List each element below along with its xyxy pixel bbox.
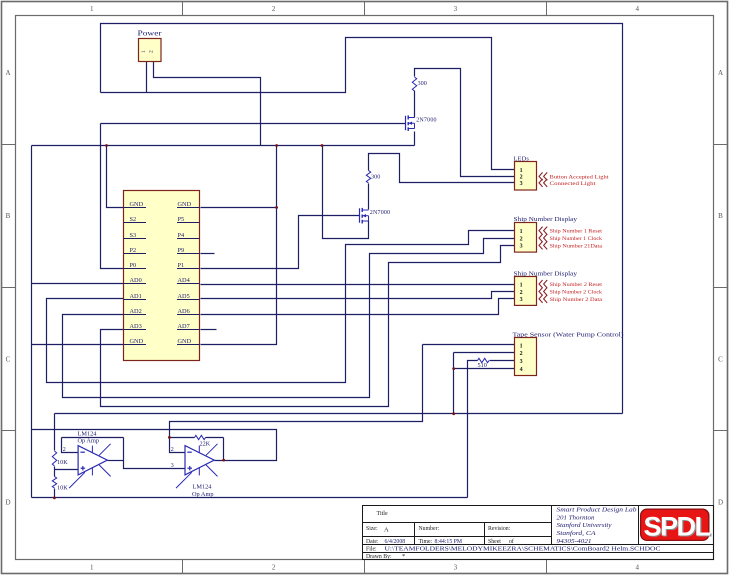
- wire op-amp 1 feedback top: [62, 437, 124, 439]
- wire ground riser to R 510: [468, 361, 478, 498]
- svg-text:4: 4: [635, 5, 639, 13]
- wire op-amp 1 - input: [62, 438, 79, 453]
- svg-text:Ship Number 1 Reset: Ship Number 1 Reset: [550, 229, 603, 235]
- wire Power pin 1: [146, 62, 148, 93]
- wire AD4 to Ship 2 pin 1: [201, 284, 515, 286]
- U1 pin P5 (right row 2): [177, 222, 200, 224]
- U1 pin GND (left row 1): [124, 207, 147, 209]
- svg-text:Date:: Date:: [366, 539, 379, 545]
- wire P9 stub: [201, 253, 215, 255]
- wire U1 GND right: [201, 207, 277, 209]
- wire Tape pin 1 to op-amp 2 - input: [170, 345, 423, 453]
- svg-text:300: 300: [418, 80, 427, 87]
- svg-text:4: 4: [635, 564, 639, 572]
- svg-text:AD3: AD3: [130, 323, 142, 330]
- svg-text:8:44:15 PM: 8:44:15 PM: [435, 539, 463, 545]
- svg-text:10K: 10K: [57, 459, 68, 466]
- svg-text:D: D: [5, 499, 10, 507]
- svg-text:Sheet: Sheet: [488, 539, 501, 545]
- svg-text:C: C: [718, 355, 723, 363]
- wire U1 GND right riser: [201, 146, 277, 345]
- wire rail to R 10K: [54, 414, 56, 451]
- svg-text:1: 1: [520, 229, 523, 235]
- svg-text:2: 2: [520, 290, 523, 296]
- svg-text:P9: P9: [178, 247, 185, 254]
- wire R 510 to Tape pin 3: [490, 360, 515, 362]
- wire AD5 to Ship 2 pin 2: [201, 292, 515, 299]
- svg-text:D: D: [718, 499, 723, 507]
- svg-text:P2: P2: [130, 247, 137, 254]
- svg-text:2: 2: [171, 447, 174, 453]
- junction ground bus / U1 GND left: [105, 144, 108, 147]
- svg-text:Number:: Number:: [419, 526, 440, 532]
- svg-text:GND: GND: [178, 338, 192, 345]
- svg-text:3: 3: [454, 564, 458, 572]
- svg-text:SPDL: SPDL: [643, 512, 710, 542]
- svg-text:Size:: Size:: [366, 526, 378, 532]
- connector Tape Sensor (Water Pump Control): [515, 338, 537, 376]
- svg-text:2: 2: [520, 351, 523, 357]
- svg-text:AD7: AD7: [178, 323, 190, 330]
- wire Q2 drain to R 300: [368, 184, 370, 210]
- U1 pin GND (left row 10): [124, 344, 147, 346]
- title block: [363, 506, 714, 560]
- connector LEDs: [515, 162, 537, 191]
- U1 pin AD4 (right row 6): [177, 283, 200, 285]
- wire Tape pin 2 drop: [453, 353, 455, 414]
- junction op-amp 2 feedback: [168, 436, 171, 439]
- junction ground bus / GND right riser: [275, 144, 278, 147]
- transistor Q1 2N7000: [406, 115, 415, 131]
- junction op-amp 2 output: [222, 459, 225, 462]
- svg-text:Time:: Time:: [419, 539, 433, 545]
- svg-text:C: C: [6, 355, 11, 363]
- svg-text:AD5: AD5: [178, 293, 190, 300]
- svg-text:GND: GND: [130, 338, 144, 345]
- svg-text:P5: P5: [178, 216, 185, 223]
- svg-text:Ship Number 2 Data: Ship Number 2 Data: [550, 297, 603, 303]
- svg-text:Ship Number 21Data: Ship Number 21Data: [550, 243, 603, 249]
- svg-text:3: 3: [520, 297, 523, 303]
- connector Ship Number Display 1: [515, 223, 537, 253]
- svg-text:Op Amp: Op Amp: [78, 437, 100, 444]
- wire ground bus horizontal: [32, 145, 415, 147]
- resistor 300 (Q1 drain): [412, 77, 416, 91]
- svg-text:*: *: [402, 553, 405, 560]
- svg-text:2N7000: 2N7000: [370, 210, 391, 216]
- wire AD0: [32, 283, 124, 285]
- wire Q2 source loop: [323, 146, 369, 239]
- op-amp U2A LM124: [69, 444, 111, 488]
- resistor 10K (lower divider): [52, 477, 56, 489]
- svg-text:AD2: AD2: [130, 308, 142, 315]
- svg-text:Smart Product Design Lab: Smart Product Design Lab: [557, 506, 637, 513]
- wire feedback drop: [223, 438, 225, 461]
- svg-text:300: 300: [371, 174, 380, 181]
- U1 pin AD6 (right row 8): [177, 314, 200, 316]
- svg-text:Power: Power: [138, 30, 163, 38]
- junction ground bus / Q2 source: [321, 144, 324, 147]
- wire bottom rail: [55, 413, 623, 415]
- resistor 22K (op-amp 2 feedback): [195, 435, 206, 439]
- U1 pin P4 (right row 3): [177, 238, 200, 240]
- U1 pin P2 (left row 4): [124, 253, 147, 255]
- svg-text:Button Accepted Light: Button Accepted Light: [550, 174, 610, 180]
- svg-text:P4: P4: [178, 232, 186, 239]
- wire Power pin 2: [154, 62, 261, 146]
- junction Tape pin 4: [452, 367, 455, 370]
- svg-text:S2: S2: [130, 216, 137, 223]
- svg-text:3: 3: [520, 359, 523, 365]
- svg-text:Stanford University: Stanford University: [557, 522, 612, 529]
- svg-text:S3: S3: [130, 232, 137, 239]
- wire Tape pin 4: [454, 368, 515, 370]
- svg-text:A: A: [5, 69, 10, 77]
- svg-text:A: A: [384, 527, 389, 534]
- wire AD2 to Ship 1 pin 2: [63, 239, 515, 398]
- svg-text:2: 2: [272, 5, 276, 13]
- svg-text:Revision:: Revision:: [488, 526, 511, 532]
- connector Ship Number Display 2: [515, 277, 537, 306]
- transistor Q2 2N7000: [360, 208, 369, 224]
- U1 pin AD2 (left row 8): [124, 314, 147, 316]
- wire power top rail: [101, 24, 623, 414]
- svg-text:3: 3: [171, 463, 174, 469]
- wire to U1 P0: [101, 124, 124, 269]
- wire bottom ground bus: [32, 497, 468, 499]
- wire R 300 to LEDs pin 3: [369, 154, 515, 183]
- svg-text:B: B: [718, 212, 723, 220]
- net label Connected Light: [539, 179, 547, 187]
- U1 pin P1 (right row 5): [177, 268, 200, 270]
- U1 pin AD7 (right row 9): [177, 329, 200, 331]
- wire divider tap to op-amp + input: [55, 469, 79, 471]
- U1 pin S2 (left row 2): [124, 222, 147, 224]
- svg-text:Ship Number Display: Ship Number Display: [514, 271, 579, 277]
- svg-text:1: 1: [90, 5, 94, 13]
- wire to R 22K: [170, 437, 195, 439]
- svg-text:LEDs: LEDs: [514, 155, 530, 162]
- U1 pin GND (right row 10): [177, 344, 200, 346]
- svg-text:3: 3: [454, 5, 458, 13]
- svg-text:Title: Title: [377, 511, 388, 517]
- svg-text:GND: GND: [130, 201, 144, 208]
- wire Tape pin 1: [423, 344, 515, 346]
- svg-text:510: 510: [478, 362, 487, 369]
- svg-text:2: 2: [520, 236, 523, 242]
- svg-text:LM124: LM124: [193, 484, 213, 491]
- svg-text:File:: File:: [366, 547, 377, 553]
- wire to LEDs pin 1: [101, 38, 515, 170]
- op-amp U2B LM124: [176, 444, 218, 488]
- junction divider / ground bus: [53, 497, 56, 500]
- svg-text:U:\TEAMFOLDERS\MELODYMIKEEZRA\: U:\TEAMFOLDERS\MELODYMIKEEZRA\SCHEMATICS…: [385, 547, 661, 553]
- svg-text:Ship Number 1 Clock: Ship Number 1 Clock: [550, 236, 603, 242]
- wire to U1 GND left: [107, 146, 124, 208]
- svg-text:1: 1: [520, 168, 523, 174]
- svg-text:201 Thornton: 201 Thornton: [557, 514, 595, 521]
- U1 pin S3 (left row 3): [124, 238, 147, 240]
- resistor 510 (Tape pin 3): [478, 358, 490, 362]
- wire op-amp 1 output: [108, 460, 124, 462]
- resistor 300 (Q2 drain): [366, 171, 370, 184]
- IC U1 microcontroller header: [124, 191, 200, 361]
- svg-text:Drawn By:: Drawn By:: [366, 554, 392, 560]
- svg-text:1: 1: [520, 282, 523, 288]
- svg-text:94305-4021: 94305-4021: [557, 538, 592, 545]
- svg-text:Stanford, CA: Stanford, CA: [557, 530, 596, 537]
- resistor 10K (upper divider): [52, 451, 56, 466]
- svg-text:of: of: [509, 538, 514, 545]
- wire AD3 to Ship 1 pin 3: [101, 246, 515, 407]
- wire P0 to Q1 gate: [101, 123, 406, 125]
- svg-text:P0: P0: [130, 262, 137, 269]
- svg-text:LM124: LM124: [78, 430, 98, 437]
- svg-text:Op Amp: Op Amp: [192, 491, 214, 498]
- junction U1 GND right pin: [275, 206, 278, 209]
- svg-text:B: B: [6, 212, 11, 220]
- svg-text:Tape Sensor (Water Pump Contro: Tape Sensor (Water Pump Control): [513, 331, 624, 338]
- wire P1 to Q2 gate: [201, 216, 360, 269]
- wire AD1 to Ship 1 pin 1: [47, 231, 515, 383]
- net label Button Accepted Light: [539, 172, 547, 180]
- svg-text:AD6: AD6: [178, 308, 190, 315]
- wire AD6 to Ship 2 pin 3: [201, 299, 515, 315]
- svg-text:22K: 22K: [200, 441, 211, 448]
- svg-text:3: 3: [520, 181, 523, 187]
- svg-text:2: 2: [149, 50, 155, 53]
- svg-text:GND: GND: [178, 201, 192, 208]
- connector Power: [139, 39, 162, 62]
- svg-text:6/4/2008: 6/4/2008: [385, 539, 406, 545]
- wire between 10K resistors: [54, 467, 56, 477]
- U1 pin P0 (left row 5): [124, 268, 147, 270]
- wire op-amp 2 output return: [32, 430, 277, 461]
- svg-text:3: 3: [520, 244, 523, 250]
- SPDL logo: [640, 509, 710, 542]
- svg-text:1: 1: [90, 564, 94, 572]
- U1 pin GND (right row 1): [177, 207, 200, 209]
- svg-text:AD4: AD4: [178, 277, 191, 284]
- svg-text:Ship Number Display: Ship Number Display: [514, 217, 579, 223]
- svg-text:10K: 10K: [57, 485, 68, 492]
- svg-text:Connected Light: Connected Light: [550, 181, 597, 187]
- wire Q1 source: [414, 132, 416, 146]
- svg-text:2: 2: [63, 447, 66, 453]
- U1 pin AD5 (right row 7): [177, 299, 200, 301]
- wire R 22K to output: [206, 437, 224, 439]
- svg-text:AD0: AD0: [130, 277, 142, 284]
- U1 pin AD3 (left row 9): [124, 329, 147, 331]
- wire U1 GND bottom left: [32, 344, 124, 346]
- wire Q1 drain to R 300: [414, 91, 416, 118]
- svg-text:A: A: [718, 69, 723, 77]
- U1 pin AD0 (left row 6): [124, 283, 147, 285]
- svg-text:1: 1: [141, 50, 147, 53]
- svg-text:Ship Number 2 Clock: Ship Number 2 Clock: [550, 290, 603, 296]
- svg-text:2N7000: 2N7000: [416, 118, 437, 124]
- wire Tape pin 2: [454, 352, 515, 354]
- U1 pin P9 (right row 4): [177, 253, 200, 255]
- junction Tape drop / bottom rail: [452, 412, 455, 415]
- wire op-amp 1 output to op-amp 2 + input: [124, 438, 185, 469]
- svg-text:AD1: AD1: [130, 293, 142, 300]
- svg-text:4: 4: [520, 367, 523, 373]
- wire ground bus left vertical: [31, 146, 33, 498]
- U1 pin AD1 (left row 7): [124, 299, 147, 301]
- svg-text:Ship Number 2 Reset: Ship Number 2 Reset: [550, 282, 603, 288]
- wire R 300 to LEDs pin 2: [415, 69, 515, 177]
- wire AD7 stub: [201, 329, 217, 331]
- wire R 10K to ground bus: [54, 489, 56, 498]
- svg-text:2: 2: [520, 175, 523, 181]
- svg-text:2: 2: [272, 564, 276, 572]
- svg-text:P1: P1: [178, 262, 185, 269]
- svg-text:1: 1: [520, 343, 523, 349]
